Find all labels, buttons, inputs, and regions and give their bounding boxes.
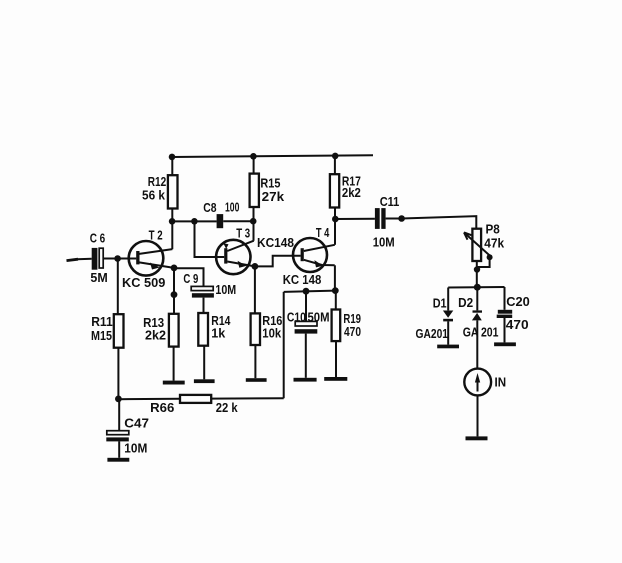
svg-text:27k: 27k (262, 189, 285, 204)
wire: meter bottom lead (477, 395, 479, 436)
node: T2 emitter junction (171, 265, 178, 272)
svg-text:KC 148: KC 148 (283, 272, 322, 287)
wire: D2 to meter (476, 320, 478, 368)
svg-text:C11: C11 (380, 194, 400, 209)
node: C8/T3-base junction (191, 218, 198, 225)
svg-text:10k: 10k (262, 326, 282, 341)
svg-text:GA 201: GA 201 (463, 325, 499, 340)
wire: R12 top lead (171, 157, 173, 175)
node: detector main node (474, 284, 481, 291)
node: R17/C11 junction (332, 216, 339, 223)
svg-text:2k2: 2k2 (342, 185, 361, 200)
svg-text:C8: C8 (203, 200, 216, 215)
node: R15/C8 junction (250, 218, 257, 225)
wire: T4 emitter drop (334, 265, 336, 290)
wire: R16 top lead (254, 266, 256, 313)
ground: R19 (324, 377, 347, 381)
svg-text:2k2: 2k2 (145, 327, 166, 342)
ground: C10 (294, 378, 317, 382)
wire: R17 top lead (334, 156, 336, 174)
wire: C20 bottom lead (504, 318, 506, 342)
wire: D1 bottom lead (447, 321, 449, 344)
wire: detector row (448, 286, 504, 289)
svg-text:56 k: 56 k (142, 187, 166, 202)
wire: R15 top lead (253, 156, 255, 173)
node: P8 wiper terminal (487, 254, 493, 260)
transistor T2 (129, 241, 174, 276)
svg-text:470: 470 (506, 317, 529, 332)
node: T3 emitter junction (252, 263, 259, 270)
potentiometer P8 wiper arrow (464, 233, 490, 256)
capacitor C9 (191, 286, 214, 297)
svg-text:D2: D2 (458, 295, 473, 310)
svg-text:T 2: T 2 (149, 227, 163, 242)
wire: R19 bottom lead (335, 341, 337, 377)
wire: C8 row right segment (223, 220, 253, 222)
resistor R15 (250, 174, 259, 207)
diode D1 (443, 311, 453, 322)
svg-text:KC148: KC148 (257, 235, 294, 250)
svg-text:T 3: T 3 (236, 225, 250, 240)
wire: R17 node to C11 (335, 218, 375, 220)
wire: R15 bottom lead / T3 collector riser (253, 207, 255, 241)
wire: R16 bottom lead (254, 345, 256, 378)
capacitor C47 (106, 431, 129, 442)
node: dot on R13 lead (171, 291, 178, 298)
wire: feedback drop to R66 (283, 292, 285, 398)
wire: P8 bottom lead (476, 261, 478, 287)
wire: R11 top lead (117, 259, 119, 315)
svg-text:IN: IN (495, 375, 507, 390)
wire: wiper tie-down (477, 257, 489, 267)
svg-text:10M: 10M (215, 282, 236, 297)
wire: T3 base drop (195, 221, 225, 257)
capacitor C6 (92, 248, 104, 270)
resistor R66 (180, 395, 211, 403)
diode D2 (472, 310, 482, 320)
wire: C47 bottom lead (118, 441, 120, 457)
wire: R66 row left (118, 398, 180, 400)
svg-text:10M: 10M (124, 440, 147, 455)
wire: C8 row left segment (172, 220, 217, 222)
svg-text:R11: R11 (91, 314, 113, 329)
svg-text:C 9: C 9 (183, 271, 198, 286)
node: rail/R17 junction (332, 153, 339, 160)
svg-text:GA201: GA201 (416, 326, 449, 341)
svg-text:470: 470 (344, 324, 361, 339)
transistor T4 (293, 238, 335, 272)
wire: C11 to P8 (386, 216, 477, 229)
wire: input to C6 (77, 258, 92, 261)
svg-text:C20: C20 (506, 294, 530, 309)
resistor R14 (198, 313, 208, 346)
wire: emitter row (284, 291, 336, 292)
svg-text:M15: M15 (91, 328, 112, 343)
capacitor C20 (497, 310, 513, 318)
capacitor C8 (217, 214, 224, 228)
node: C6/R11 junction (114, 255, 121, 262)
ground: C20 (494, 342, 516, 346)
ground: R16 (246, 378, 267, 382)
wire: R66 row right (211, 397, 284, 399)
potentiometer P8 body (472, 229, 481, 261)
wire: C6 to T2 base (103, 258, 136, 260)
resistor R13 (169, 314, 179, 347)
wire: emitter node to C9 (174, 268, 204, 286)
node: P8 bottom junction (474, 266, 480, 272)
wire: top supply rail (172, 155, 373, 157)
node: C11/P8 junction (398, 215, 405, 222)
wire: C10 bottom lead (305, 334, 307, 378)
meter IN (464, 369, 491, 396)
svg-text:10M: 10M (373, 235, 395, 250)
wire: R12 bottom lead / T2 collector riser (171, 209, 173, 250)
wire: R14 bottom lead (203, 346, 205, 380)
svg-text:C 6: C 6 (90, 231, 106, 246)
svg-text:5M: 5M (90, 270, 107, 285)
wire: C47 top lead (118, 399, 120, 431)
svg-text:100: 100 (225, 200, 239, 215)
ground: R13 (163, 381, 185, 385)
svg-text:D1: D1 (433, 296, 447, 311)
node: rail/R12 junction (169, 154, 176, 161)
wire: C9 to R14 (203, 298, 205, 313)
svg-text:P8: P8 (486, 221, 500, 236)
ground: R14 (194, 379, 215, 383)
wire: R13 bottom lead (173, 347, 175, 381)
svg-text:50M: 50M (308, 309, 330, 324)
resistor R19 (332, 310, 341, 342)
wire: R11 bottom lead (117, 348, 119, 400)
node: R11/R66/C47 junction (115, 396, 122, 403)
wire: R19 top lead (335, 291, 337, 310)
ground: D1 (437, 345, 459, 349)
wire: D2 top lead (476, 287, 478, 310)
capacitor C10 (295, 321, 318, 333)
resistor R16 (251, 313, 260, 345)
wire: input lead (67, 259, 79, 260)
svg-text:C47: C47 (124, 416, 149, 431)
wire: T3 emitter to T4 base (255, 256, 301, 267)
svg-text:KC 509: KC 509 (122, 275, 165, 290)
capacitor C11 (375, 208, 386, 229)
node: rail/R15 junction (250, 153, 257, 160)
wire: R17 bottom lead / T4 collector riser (334, 208, 336, 245)
resistor R11 (114, 314, 124, 348)
svg-text:22 k: 22 k (216, 400, 239, 415)
resistor R17 (330, 174, 339, 207)
wire: C20 top lead (504, 287, 506, 310)
svg-text:1k: 1k (211, 326, 226, 341)
ground: meter (466, 436, 488, 440)
svg-text:T 4: T 4 (316, 225, 330, 240)
node: R12/C8 junction (169, 218, 176, 225)
transistor T3 (216, 240, 255, 274)
ground: C47 (107, 458, 129, 462)
node: T4 emitter / R19 junction (332, 287, 339, 294)
resistor R1 2 (168, 175, 178, 208)
svg-text:R66: R66 (150, 400, 174, 415)
node: C10 junction (303, 288, 310, 295)
svg-text:47k: 47k (484, 236, 505, 251)
svg-text:C10: C10 (287, 309, 306, 324)
wire: C10 top lead (305, 291, 307, 321)
wire: R13 top lead (173, 268, 175, 314)
wire: D1 top lead (447, 288, 449, 311)
